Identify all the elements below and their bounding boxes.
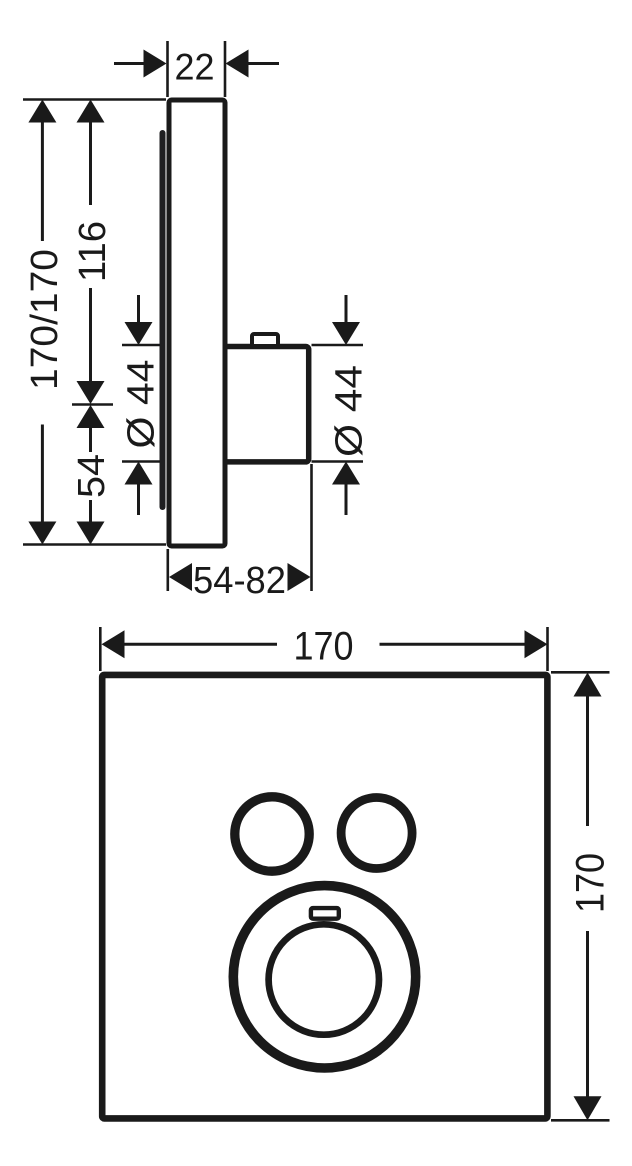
dimension 170 top: right leader (380, 643, 526, 646)
square cover plate (front view) (102, 675, 547, 1119)
dimension 22: left extension line (166, 41, 169, 97)
dimension Ø44 right: top arrow (332, 322, 360, 345)
junction tick (72, 403, 113, 406)
dimension 22: left leader (114, 62, 145, 65)
stop button tab on cylinder top (252, 334, 278, 346)
dimension 54-82: right extension line (310, 464, 313, 591)
dimension 170/170: up arrow (28, 100, 56, 123)
thermostat inner knob circle (269, 924, 379, 1034)
dimension 170 right: bottom extension line (551, 1119, 610, 1122)
dimension 170 top: left arrow (102, 630, 125, 658)
dimension 170/170: down arrow (28, 522, 56, 545)
right select button circle (341, 798, 412, 869)
dimension Ø44 right: top extension line (312, 344, 364, 347)
svg-text:54-82: 54-82 (193, 560, 286, 602)
cover plate (side view) (169, 100, 225, 546)
dimension Ø44 left: bottom extension line (122, 460, 160, 463)
dimension Ø44 left: top arrow (125, 322, 153, 345)
svg-text:170/170: 170/170 (24, 249, 66, 390)
dimension 116: down arrow at junction (77, 381, 105, 404)
svg-text:Ø 44: Ø 44 (121, 360, 163, 449)
svg-text:116: 116 (72, 221, 114, 282)
dimension Ø44 left: top leader (137, 295, 140, 323)
dimension 54-82: left extension line (167, 549, 170, 591)
dimension 116: upper line segment (89, 121, 92, 205)
dimension Ø44 left: top extension line (122, 344, 160, 347)
dimension 170 top: left extension line (99, 627, 102, 671)
dimension 54: lower line segment (89, 500, 92, 523)
dimension 170 top: right arrow (525, 630, 548, 658)
thermostat outer ring (233, 886, 415, 1068)
dimension Ø44 left: bottom arrow (125, 462, 153, 485)
dimension 22: right extension line (224, 41, 227, 97)
dimension 170 right: top extension line (551, 671, 610, 674)
dimension 54: upper line segment (89, 427, 92, 452)
dimension 170 right: upper leader (586, 695, 589, 826)
cylinder valve body (side view) (222, 347, 309, 462)
svg-text:170: 170 (569, 853, 613, 913)
dimension 170 right: bottom arrow (574, 1096, 602, 1120)
dimension 22: right leader (248, 62, 279, 65)
dimension 170 right: lower leader (586, 931, 589, 1098)
dimension 54-82: left arrow (169, 563, 192, 591)
dimension 54: up arrow at junction (77, 405, 105, 428)
dimension 22: left arrow (144, 50, 167, 78)
dimension Ø44 right: bottom leader (345, 484, 348, 515)
dimension 116: lower line segment (89, 288, 92, 382)
dimension 170/170: upper line segment (41, 121, 44, 241)
dimension 54-82: right arrow (288, 563, 311, 591)
dimension 170 right: top arrow (574, 673, 602, 697)
left select button circle (235, 797, 309, 871)
svg-text:Ø 44: Ø 44 (329, 365, 371, 457)
dimension Ø44 left: bottom leader (137, 484, 140, 515)
dimension Ø44 right: bottom arrow (332, 462, 360, 485)
top extension line of 170/170 (23, 98, 166, 101)
dimension 116: up arrow (77, 100, 105, 123)
dimension Ø44 right: bottom extension line (312, 460, 364, 463)
svg-text:54: 54 (71, 454, 113, 498)
bottom extension line of 170/170 (23, 543, 166, 546)
svg-text:22: 22 (175, 47, 215, 88)
dimension Ø44 right: top leader (345, 295, 348, 323)
dimension 22: right arrow (226, 50, 249, 78)
svg-text:170: 170 (294, 625, 354, 669)
dimension 54: down arrow (77, 522, 105, 545)
dimension 170 top: left leader (124, 643, 278, 646)
dimension 170/170: lower line segment (41, 425, 44, 524)
dimension 170 top: right extension line (546, 627, 549, 671)
knob grip tab (311, 908, 339, 919)
wall flange bar behind plate (160, 130, 166, 510)
